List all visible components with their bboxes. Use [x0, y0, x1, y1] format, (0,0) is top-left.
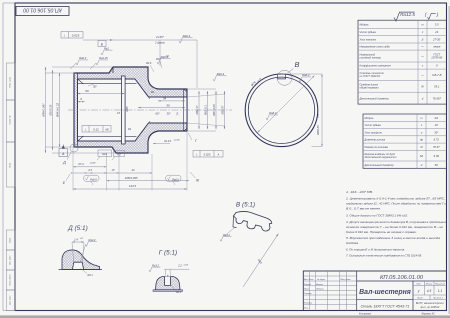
svg-text:Ra6.3: Ra6.3 — [217, 72, 225, 76]
svg-text:R16: R16 — [102, 152, 107, 156]
svg-text:+0.025: +0.025 — [174, 140, 181, 142]
svg-text:Вал-шестерня: Вал-шестерня — [359, 289, 411, 296]
svg-text:Утв.: Утв. — [304, 308, 309, 310]
svg-text:КП.05.106.01.00: КП.05.106.01.00 — [380, 275, 424, 281]
svg-text:0.12: 0.12 — [93, 127, 99, 131]
svg-text:Разраб.: Разраб. — [304, 284, 312, 286]
svg-text:В (5:1): В (5:1) — [236, 202, 255, 209]
svg-text:Иванов: Иванов — [316, 284, 323, 286]
svg-text:Лит: Лит — [415, 284, 421, 286]
svg-text:Копировал: Копировал — [359, 313, 372, 316]
svg-text:+0.039: +0.039 — [90, 163, 97, 165]
svg-text:59: 59 — [166, 103, 170, 107]
svg-text:44: 44 — [132, 168, 135, 172]
svg-text:Диаметр ролика: Диаметр ролика — [364, 138, 386, 142]
svg-text:Ø80.25: Ø80.25 — [316, 125, 320, 136]
svg-text:β: β — [421, 37, 424, 41]
svg-text:исходный контур: исходный контур — [360, 55, 382, 59]
svg-text:Число зубьев: Число зубьев — [360, 30, 377, 34]
svg-text:Ø52.17: Ø52.17 — [195, 105, 199, 115]
svg-text:27°30': 27°30' — [432, 37, 441, 41]
svg-text:R2: R2 — [117, 152, 121, 156]
svg-text:2. Цементировать h 0.9-1.4 мм;: 2. Цементировать h 0.9-1.4 мм; твёрдость… — [345, 197, 445, 201]
svg-text:Делительный диаметр: Делительный диаметр — [364, 163, 395, 167]
svg-text:Число зубьев: Число зубьев — [365, 123, 382, 127]
svg-text:—: — — [420, 74, 424, 77]
svg-text:—: — — [420, 46, 424, 49]
svg-text:Ø62-0.1: Ø62-0.1 — [204, 105, 208, 116]
svg-text:Ra0.8: Ra0.8 — [90, 178, 97, 181]
svg-text:60: 60 — [85, 89, 89, 93]
svg-text:59.1: 59.1 — [434, 84, 440, 88]
svg-text:Ra2: Ra2 — [104, 46, 109, 50]
svg-text:0.025: 0.025 — [204, 152, 211, 156]
svg-text:Направление линии зуба: Направление линии зуба — [360, 45, 391, 49]
svg-text:9-В-7-В: 9-В-7-В — [432, 73, 441, 77]
svg-text:Ra3.2: Ra3.2 — [223, 233, 230, 237]
svg-text:Делительный диаметр: Делительный диаметр — [359, 96, 390, 100]
svg-text:Инв. подл.: Инв. подл. — [9, 295, 12, 305]
svg-text:Д (5:1): Д (5:1) — [67, 225, 87, 232]
svg-text:Листов 1: Листов 1 — [432, 298, 444, 300]
svg-text:Sд: Sд — [420, 154, 424, 158]
svg-text:Лист: Лист — [416, 298, 423, 300]
svg-text:): ) — [436, 12, 439, 18]
svg-text:1:1: 1:1 — [438, 289, 443, 293]
svg-text:Инв. дубл.: Инв. дубл. — [9, 255, 12, 265]
svg-text:13755-68: 13755-68 — [431, 55, 443, 59]
svg-text:сердцевины зубьев 32...42 HRC.: сердцевины зубьев 32...42 HRC. После обр… — [346, 202, 446, 206]
svg-text:Подп.: Подп. — [9, 162, 12, 168]
svg-text:R0.1: R0.1 — [88, 274, 94, 277]
svg-text:АБ: АБ — [104, 127, 109, 131]
svg-text:37.2: 37.2 — [78, 162, 84, 166]
svg-text:Размер по роликам: Размер по роликам — [365, 145, 389, 149]
svg-text:—: — — [420, 55, 424, 58]
svg-text:Модуль: Модуль — [365, 116, 375, 120]
svg-text:Ra3.2: Ra3.2 — [152, 263, 159, 267]
svg-text:более 0.010 мм. Проверять не с: более 0.010 мм. Проверять не снимая с оп… — [346, 230, 417, 234]
svg-text:КП.05.106.01.00: КП.05.106.01.00 — [23, 7, 62, 13]
svg-text:76.087: 76.087 — [433, 96, 442, 100]
svg-text:Перв. прим.: Перв. прим. — [10, 76, 12, 88]
svg-text:2.2: 2.2 — [177, 264, 182, 268]
svg-text:Справ. №: Справ. № — [9, 115, 12, 125]
svg-text:105±0.095: 105±0.095 — [125, 176, 138, 180]
svg-text:Угол наклона: Угол наклона — [360, 37, 377, 41]
svg-text:Ø52.87: Ø52.87 — [221, 105, 225, 115]
svg-text:Ø67-0.05: Ø67-0.05 — [212, 104, 216, 117]
svg-text:левое: левое — [432, 46, 441, 49]
svg-text:5.5: 5.5 — [435, 22, 439, 26]
svg-text:Ra6.3: Ra6.3 — [183, 34, 191, 38]
svg-text:А: А — [217, 152, 220, 156]
svg-text:R0.6: R0.6 — [146, 62, 152, 65]
svg-text:1. 163...207 НВ.: 1. 163...207 НВ. — [346, 190, 373, 194]
svg-text:R16: R16 — [156, 58, 161, 61]
svg-text:Д: Д — [62, 161, 66, 165]
svg-text:сечениях поверхности Г – не бо: сечениях поверхности Г – не более 0.012 … — [346, 225, 443, 229]
svg-text:по ГОСТ 1643-81: по ГОСТ 1643-81 — [360, 74, 381, 78]
svg-text:Ø100.25: Ø100.25 — [49, 104, 53, 116]
svg-text:Н.контр.: Н.контр. — [304, 302, 313, 304]
svg-text:Подп. Дата: Подп. Дата — [340, 278, 351, 281]
svg-text:Взам.: Взам. — [10, 237, 12, 243]
svg-text:Сталь 18ХГТ ГОСТ 4543-71: Сталь 18ХГТ ГОСТ 4543-71 — [361, 304, 410, 308]
svg-text:Ø84.6-0.22: Ø84.6-0.22 — [56, 103, 60, 118]
svg-text:№ докум.: № докум. — [317, 278, 326, 281]
svg-text:4.3: 4.3 — [88, 168, 92, 172]
svg-text:Пров.: Пров. — [304, 288, 310, 290]
svg-text:общей нормали: общей нормали — [360, 86, 380, 90]
svg-text:2×45°: 2×45° — [155, 35, 165, 39]
svg-text:2 фаски: 2 фаски — [154, 41, 165, 45]
svg-text:Подп. дата: Подп. дата — [9, 274, 12, 286]
svg-text:1.4: 1.4 — [74, 237, 78, 241]
svg-text:24: 24 — [434, 30, 438, 34]
svg-text:20: 20 — [434, 123, 438, 127]
svg-text:+0.1: +0.1 — [318, 114, 320, 118]
svg-text:Ø68: Ø68 — [125, 106, 129, 112]
svg-text:Угол профиля: Угол профиля — [365, 130, 383, 134]
svg-text:Т.контр.: Т.контр. — [304, 293, 313, 295]
svg-text:В 0...0.7 мм не менее.: В 0...0.7 мм не менее. — [346, 207, 381, 211]
svg-text:Ø98-0.087: Ø98-0.087 — [42, 103, 46, 118]
svg-text:Модуль: Модуль — [360, 22, 370, 26]
svg-text:Формат А2: Формат А2 — [421, 313, 435, 316]
svg-text:Г (5:1): Г (5:1) — [159, 250, 177, 257]
svg-text:5. Впускается прослабление 3 ш: 5. Впускается прослабление 3 шлиц в мест… — [346, 236, 440, 240]
svg-text:34: 34 — [163, 97, 167, 101]
svg-text:Масштаб: Масштаб — [435, 284, 445, 286]
svg-text:делительной окружности: делительной окружности — [365, 155, 398, 159]
svg-text:⊥: ⊥ — [63, 34, 66, 38]
svg-text:70.57: 70.57 — [433, 145, 440, 149]
svg-text:7. Остальные технические требо: 7. Остальные технические требования по С… — [346, 254, 422, 258]
svg-text:Изм. Лист: Изм. Лист — [304, 279, 314, 281]
svg-text:Ra1.25: Ra1.25 — [99, 56, 108, 60]
svg-text:Ra3.2: Ra3.2 — [89, 238, 96, 242]
svg-text:6.09: 6.09 — [434, 154, 440, 158]
svg-text:31.15: 31.15 — [164, 139, 171, 143]
svg-text:Масса: Масса — [426, 284, 433, 286]
svg-text:R0.1: R0.1 — [176, 291, 182, 294]
svg-text:Петров: Петров — [316, 288, 323, 290]
svg-text:Ra12.5: Ra12.5 — [400, 12, 415, 17]
svg-text:Ra6.3: Ra6.3 — [79, 56, 86, 60]
svg-text:3. Общие допуски по ГОСТ 30893: 3. Общие допуски по ГОСТ 30893.1 6% ±t/2… — [346, 214, 408, 218]
svg-text:+0.1: +0.1 — [80, 238, 84, 240]
svg-text:143.5: 143.5 — [129, 184, 137, 188]
svg-text:Ra0.8: Ra0.8 — [172, 178, 179, 181]
svg-text:ф-т, гр.104512: ф-т, гр.104512 — [421, 305, 440, 309]
svg-text:4. Допуск неконцентричности ди: 4. Допуск неконцентричности диаметра В, … — [346, 220, 446, 224]
svg-text:В: В — [294, 60, 299, 69]
svg-text:Коэффициент смещения: Коэффициент смещения — [360, 64, 392, 68]
svg-text:6. По торцам Е и Ж допускается: 6. По торцам Е и Ж допускается чернота. — [346, 248, 405, 252]
svg-text:6.72: 6.72 — [434, 138, 440, 142]
svg-text:у: у — [417, 289, 420, 293]
svg-text:4.5: 4.5 — [427, 289, 432, 293]
svg-text:долбяка.: долбяка. — [346, 241, 359, 245]
svg-text:БНТУ, машиностроит.: БНТУ, машиностроит. — [416, 301, 445, 305]
svg-text:Ra6.3: Ra6.3 — [269, 111, 277, 115]
svg-text:W: W — [421, 84, 424, 88]
svg-text:4/2: 4/2 — [434, 116, 438, 120]
svg-text:dр: dр — [420, 138, 423, 142]
svg-text:80: 80 — [435, 163, 438, 167]
svg-text:15: 15 — [112, 168, 115, 172]
svg-text:0.025: 0.025 — [72, 34, 80, 38]
